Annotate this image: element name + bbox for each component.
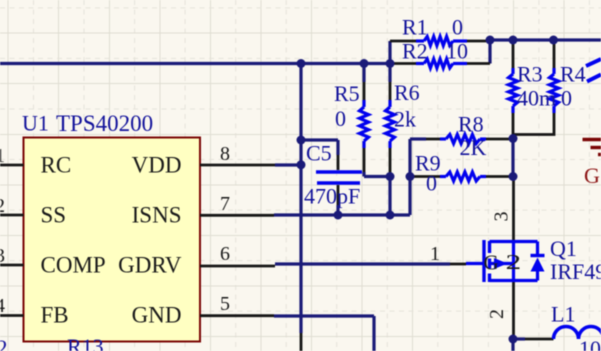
svg-text:3: 3 [491, 212, 513, 222]
svg-text:0: 0 [561, 86, 572, 111]
svg-text:G: G [484, 251, 499, 275]
svg-text:IRF4905: IRF4905 [550, 259, 601, 284]
svg-text:0: 0 [335, 106, 346, 131]
svg-text:Q1: Q1 [550, 236, 577, 261]
svg-text:L1: L1 [551, 302, 575, 327]
svg-text:R4: R4 [560, 62, 586, 87]
svg-text:8: 8 [220, 143, 230, 165]
svg-text:2K: 2K [460, 135, 487, 160]
svg-text:2: 2 [486, 309, 508, 319]
svg-text:R6: R6 [394, 80, 420, 105]
svg-text:VDD: VDD [132, 152, 182, 177]
svg-text:R1: R1 [402, 15, 428, 40]
svg-text:R3: R3 [517, 62, 543, 87]
svg-text:R2: R2 [402, 39, 428, 64]
svg-text:FB: FB [41, 302, 69, 327]
svg-text:40m: 40m [517, 86, 556, 111]
svg-text:7: 7 [220, 193, 230, 215]
svg-text:2k: 2k [394, 107, 416, 132]
svg-text:0: 0 [426, 171, 437, 196]
svg-text:100: 100 [579, 336, 601, 351]
svg-text:R13: R13 [67, 334, 104, 351]
svg-text:3: 3 [0, 245, 5, 267]
svg-text:GND: GND [132, 302, 182, 327]
svg-text:TPS40200: TPS40200 [56, 111, 153, 136]
svg-text:0: 0 [452, 15, 463, 40]
svg-text:RC: RC [41, 152, 72, 177]
svg-text:C5: C5 [306, 141, 332, 166]
svg-text:R5: R5 [334, 81, 360, 106]
svg-text:4: 4 [0, 295, 5, 317]
svg-text:2: 2 [0, 195, 5, 217]
svg-text:470pF: 470pF [304, 184, 360, 209]
svg-text:COMP: COMP [41, 252, 106, 277]
svg-text:6: 6 [220, 243, 230, 265]
svg-text:G: G [584, 163, 600, 188]
svg-text:ISNS: ISNS [132, 202, 182, 227]
svg-text:1: 1 [430, 243, 440, 265]
svg-text:10: 10 [446, 39, 468, 64]
svg-text:1: 1 [0, 145, 5, 167]
svg-text:2: 2 [0, 335, 8, 351]
svg-text:R8: R8 [458, 112, 484, 137]
svg-text:2: 2 [506, 250, 522, 274]
svg-text:SS: SS [41, 202, 67, 227]
svg-text:GDRV: GDRV [118, 252, 182, 277]
svg-text:5: 5 [220, 293, 230, 315]
svg-text:U1: U1 [22, 111, 49, 136]
